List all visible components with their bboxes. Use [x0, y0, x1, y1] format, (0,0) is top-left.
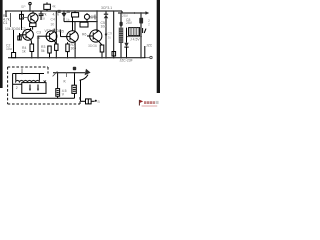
svg-text:JZC-23F: JZC-23F	[120, 58, 133, 62]
svg-text:J 4.5V: J 4.5V	[130, 37, 140, 41]
svg-text:2: 2	[16, 86, 18, 90]
svg-text:C3: C3	[37, 31, 41, 35]
svg-text:C1: C1	[3, 21, 7, 25]
svg-text:1u: 1u	[37, 36, 41, 40]
svg-text:25V: 25V	[126, 21, 133, 25]
svg-text:1u: 1u	[41, 17, 45, 21]
svg-text:4.7k: 4.7k	[53, 12, 60, 16]
svg-text:10u: 10u	[101, 24, 107, 28]
svg-text:2: 2	[148, 22, 150, 26]
svg-text:30: 30	[51, 23, 55, 27]
svg-text:10u: 10u	[6, 47, 12, 51]
svg-text:3DG6: 3DG6	[88, 44, 97, 48]
svg-text:SP: SP	[21, 5, 26, 9]
svg-text:1k: 1k	[22, 50, 26, 54]
svg-text:1u: 1u	[108, 36, 112, 40]
svg-text:5k: 5k	[41, 49, 45, 53]
svg-text:1k: 1k	[66, 18, 70, 22]
svg-text:4k: 4k	[52, 5, 56, 9]
svg-text:3CF3.1: 3CF3.1	[101, 6, 112, 10]
svg-text:JZC: JZC	[146, 43, 153, 47]
svg-text:C4: C4	[51, 18, 55, 22]
svg-text:R8 1k: R8 1k	[89, 15, 98, 19]
svg-text:10k 3DG6 C2: 10k 3DG6 C2	[5, 27, 26, 31]
svg-text:R5: R5	[60, 29, 64, 33]
svg-text:300: 300	[71, 46, 77, 50]
svg-text:R6: R6	[82, 32, 86, 36]
svg-text:VT2 3DG6: VT2 3DG6	[45, 29, 61, 33]
